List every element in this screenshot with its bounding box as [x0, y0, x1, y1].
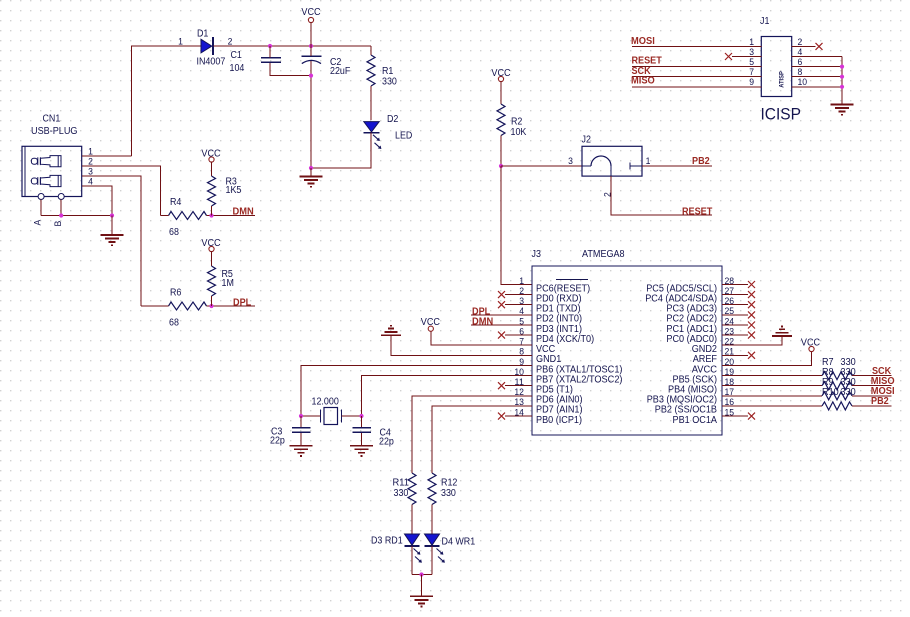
label J1 pin 7	[749, 67, 754, 78]
label J3 left pin name PD5 (T1)	[536, 385, 573, 396]
wire C3 top lead	[300, 416, 302, 427]
resistor R4	[169, 212, 207, 220]
ground symbol below USB	[101, 216, 124, 246]
label J3 pin number 1	[519, 276, 524, 287]
label J1 pin 10	[798, 77, 808, 88]
label D1 pin 2	[228, 37, 233, 48]
svg-text:IN4007: IN4007	[197, 57, 226, 68]
label J3 left pin name PC6(RESET)	[536, 283, 590, 294]
svg-text:330: 330	[441, 488, 456, 499]
IC J3 ATMEGA8 body	[532, 266, 722, 435]
label J1 pin 4	[798, 47, 803, 58]
label R2 value 10K	[511, 127, 527, 138]
label J3 right pin name PB3 (MQSI/OC2)	[647, 395, 717, 406]
svg-text:15: 15	[725, 407, 735, 418]
wire R11 bottom to D3	[411, 505, 413, 535]
label R10 designator	[822, 387, 839, 398]
diode D1 body	[201, 37, 213, 55]
svg-text:DMN: DMN	[472, 316, 493, 327]
wire crystal right lead	[342, 415, 362, 417]
wire DPL to J3 pin 4	[471, 314, 532, 316]
wire USB shield A down	[40, 200, 42, 216]
svg-text:D2: D2	[387, 114, 398, 125]
label J3 value ATMEGA8	[582, 249, 625, 260]
ground symbol at J3 pin 22 (GND2)	[772, 326, 792, 336]
label D2 designator	[387, 114, 398, 125]
label J3 pin number 18	[725, 377, 735, 388]
svg-text:22uF: 22uF	[330, 66, 350, 77]
resistor R9	[822, 392, 852, 400]
svg-text:VCC: VCC	[201, 238, 220, 249]
label J3 pin number 8	[519, 347, 524, 358]
wire RESET to J1 pin 5	[632, 66, 761, 68]
svg-text:14: 14	[514, 407, 524, 418]
label C4 designator	[380, 428, 392, 439]
resistor R7	[822, 372, 852, 380]
wire J1 pin 6 to ground bus	[792, 66, 842, 68]
label J3 left pin name PB0 (ICP1)	[536, 415, 582, 426]
capacitor C4 body	[352, 428, 371, 433]
label J3 right pin name PC4 (ADC4/SDA)	[645, 293, 717, 304]
junction at C2 top / VCC drop	[309, 44, 313, 48]
capacitor C3 body	[292, 428, 311, 433]
net label PB2 at J2	[692, 156, 710, 167]
label R12 value 330	[441, 488, 456, 499]
crystal Y1 12.000 body	[321, 408, 342, 425]
svg-text:1: 1	[646, 156, 651, 167]
wire crystal left lead	[301, 415, 321, 417]
wire SCK net from R7	[852, 375, 892, 377]
svg-text:MISO: MISO	[631, 76, 655, 87]
label R5 designator	[222, 269, 234, 280]
wire R4 left lead	[161, 215, 169, 217]
svg-text:VCC: VCC	[421, 317, 440, 328]
svg-text:R1: R1	[382, 66, 393, 77]
svg-text:VCC: VCC	[201, 148, 220, 159]
label J3 pin number 10	[514, 367, 524, 378]
label VCC at J3 pin 20	[801, 338, 820, 349]
svg-text:330: 330	[394, 488, 409, 499]
svg-text:1K5: 1K5	[226, 185, 242, 196]
svg-text:68: 68	[169, 318, 179, 329]
label CN1 pin B (rotated)	[53, 221, 64, 227]
wire DPL net from R6 to label	[207, 305, 256, 307]
junction at USB pin4/ground bus	[110, 213, 114, 217]
label J3 right pin name PC0 (ADC0)	[666, 334, 717, 345]
label R6 value 68	[169, 318, 179, 329]
resistor R8	[822, 382, 852, 390]
power VCC symbol above R3	[209, 157, 214, 176]
wire R12 bottom to D4	[431, 505, 433, 535]
wire J3 pin 18 to R8	[722, 385, 822, 387]
wire from junction to J2 pin 3	[501, 165, 582, 167]
svg-text:D1: D1	[197, 29, 208, 40]
svg-text:ATISP: ATISP	[779, 71, 786, 88]
wire J1 pin 8 to ground bus	[792, 76, 842, 78]
wire MOSI net from R9	[852, 395, 892, 397]
wire J3 pin 22 GND2 to ground	[722, 336, 782, 345]
label R5 value 1M	[222, 278, 234, 289]
connector J1 body	[761, 37, 791, 97]
wire C4 top lead	[361, 416, 363, 427]
label J3 pin number 2	[519, 286, 524, 297]
label J3 pin number 16	[725, 397, 735, 408]
label J3 pin number 13	[514, 397, 524, 408]
svg-text:PB0 (ICP1): PB0 (ICP1)	[536, 415, 582, 426]
label J3 pin number 27	[725, 286, 735, 297]
wire USB shield B down	[60, 200, 62, 216]
svg-text:ATMEGA8: ATMEGA8	[582, 249, 625, 260]
wire D3/D4 ground bus	[412, 574, 432, 576]
svg-text:1M: 1M	[222, 278, 234, 289]
label J1 pin 6	[798, 57, 803, 68]
svg-text:9: 9	[749, 77, 754, 88]
ground symbol below D3/D4	[410, 596, 433, 606]
label D1 designator	[197, 29, 208, 40]
svg-text:J2: J2	[582, 135, 591, 146]
svg-text:R4: R4	[170, 197, 182, 208]
connector CN1 USB-PLUG body	[22, 146, 82, 199]
junction J1 pin 8	[840, 75, 844, 79]
label J2 pin 3	[568, 156, 573, 167]
label D3 designator and value RD1	[371, 536, 403, 547]
LED D4 body	[425, 534, 440, 546]
label VCC at J3 pin 7	[421, 317, 440, 328]
junction at B/ground bus	[59, 213, 63, 217]
label R10 value 330	[841, 387, 857, 398]
svg-text:LED: LED	[395, 131, 412, 142]
svg-text:68: 68	[169, 227, 179, 238]
label J3 pin number 15	[725, 407, 735, 418]
wire J3 pin 17 to R9	[722, 395, 822, 397]
label R1 designator	[382, 66, 393, 77]
label J1 pin 1	[749, 37, 754, 48]
wire J1 pin 4 to ground bus	[792, 56, 842, 58]
label R7 designator	[822, 357, 834, 368]
wire USB pin 2 (D-) to R4	[82, 166, 161, 216]
net label MISO at J1	[631, 76, 655, 87]
svg-text:R2: R2	[511, 117, 522, 128]
label C3 designator	[271, 427, 283, 438]
svg-text:C1: C1	[231, 50, 242, 61]
label R11 value 330	[394, 488, 409, 499]
label J1 pin 9	[749, 77, 754, 88]
wire USB pin 1 stub	[82, 155, 132, 157]
junction R2/J2/pin1 node	[499, 164, 503, 168]
net label MISO	[871, 376, 895, 387]
svg-text:VCC: VCC	[801, 338, 820, 349]
label VCC above R5	[201, 238, 220, 249]
label R4 designator	[170, 197, 182, 208]
wire VCC rail from D1 cathode to R1 top corner	[214, 45, 372, 47]
power VCC symbol at J3 pin 7	[428, 326, 532, 345]
label J3 right pin name PB4 (MISO)	[668, 385, 717, 396]
wire J3 pin 24 stub with no-connect	[722, 322, 755, 329]
label CN1 designator	[43, 114, 61, 125]
wire C4 bottom lead	[361, 433, 363, 446]
wire SCK to J1 pin 7	[632, 76, 761, 78]
label D2 value LED	[395, 131, 412, 142]
label CN1 pin 1	[88, 147, 93, 158]
label J3 right pin name AREF	[693, 354, 717, 365]
label J3 pin number 19	[725, 367, 735, 378]
wire R5 bottom lead	[211, 296, 213, 306]
label J3 pin number 26	[725, 296, 735, 307]
label J1 vertical text ATISP	[779, 71, 786, 88]
label C2 value 22uF	[330, 66, 350, 77]
wire R1 top lead	[370, 46, 372, 55]
label C1 value 104	[230, 63, 245, 74]
junction D3/D4 ground node	[419, 572, 423, 576]
ground symbol at J3 pin 8 (GND1)	[381, 326, 532, 356]
wire from junction down to ATmega pin 1	[501, 166, 532, 285]
label D1 pin 1	[178, 37, 183, 48]
label J3 left pin name PD0 (RXD)	[536, 293, 582, 304]
wire DMN net from R4 to label	[207, 215, 256, 217]
label J3 right pin name PC1 (ADC1)	[666, 324, 717, 335]
wire C3 bottom lead	[300, 433, 302, 446]
label J3 left pin name PD4 (XCK/T0)	[536, 334, 594, 345]
label D1 value IN4007	[197, 57, 226, 68]
label J3 pin number 14	[514, 407, 524, 418]
net label DPL at J3	[472, 306, 490, 317]
power VCC symbol above R2	[498, 76, 503, 104]
wire net VBUS from USB pin 1 up to diode D1 anode	[132, 46, 202, 156]
label J3 pin number 4	[519, 306, 524, 317]
label R4 value 68	[169, 227, 179, 238]
label CN1 value USB-PLUG	[31, 126, 78, 137]
net label DMN at J3	[472, 316, 493, 327]
label J3 left pin name PD1 (TXD)	[536, 304, 581, 315]
wire J3 pin 15 stub with no-connect	[722, 413, 755, 420]
LED D3 arrows	[414, 549, 422, 563]
junction J1 pin 10	[840, 85, 844, 89]
wire J3 pin 13 to R12	[432, 406, 532, 473]
svg-text:B: B	[53, 221, 64, 227]
svg-text:3: 3	[568, 156, 573, 167]
wire J2 pin 2 down to RESET net	[611, 176, 712, 215]
wire J1 pin 3 stub with no-connect	[725, 53, 761, 60]
label J3 left pin name PB7 (XTAL2/TOSC2)	[536, 374, 623, 385]
junction J1 pin 6	[840, 65, 844, 69]
label J1 pin 3	[749, 47, 754, 58]
label R1 value 330	[382, 77, 397, 88]
wire J3 pin 10 to crystal right	[362, 376, 533, 416]
junction R3/R4/DMN	[209, 213, 213, 217]
svg-text:330: 330	[382, 77, 397, 88]
wire USB pin 3 (D+) to R6	[82, 176, 141, 306]
label R8 value 330	[841, 367, 857, 378]
wire R6 left lead	[141, 305, 169, 307]
label J3 pin number 25	[725, 306, 735, 317]
wire J3 pin 9 to crystal left	[301, 366, 532, 417]
resistor R6	[169, 302, 207, 310]
svg-text:RESET: RESET	[682, 206, 712, 217]
net label PB2	[871, 396, 889, 407]
svg-text:DMN: DMN	[233, 206, 254, 217]
label J3 pin number 7	[519, 337, 524, 348]
capacitor C1 body	[261, 58, 281, 63]
wire D3 cathode down	[411, 546, 413, 575]
label J3 right pin name PC3 (ADC3)	[666, 304, 717, 315]
label J3 pin number 12	[514, 387, 524, 398]
junction R5/R6/DPL	[209, 304, 213, 308]
svg-text:PB2: PB2	[692, 156, 710, 167]
wire J3 pin 19 to R7	[722, 375, 822, 377]
label J3 pin number 5	[519, 316, 524, 327]
label J3 pin number 20	[725, 357, 735, 368]
label R12 designator	[441, 478, 457, 489]
label CN1 pin 4	[88, 177, 93, 188]
wire J3 pin 28 stub with no-connect	[722, 281, 755, 288]
resistor R5	[208, 266, 216, 296]
label J3 pin number 9	[519, 357, 524, 368]
svg-text:330: 330	[841, 387, 857, 398]
wire R2 bottom to junction	[500, 136, 502, 167]
resistor R3	[208, 176, 216, 206]
wire MISO to J1 pin 9	[632, 86, 761, 88]
wire J3 pin 3 stub with no-connect	[498, 301, 532, 308]
label CN1 pin A (rotated)	[33, 219, 44, 225]
label CN1 pin 2	[88, 157, 93, 168]
ground symbol below J1	[831, 105, 854, 115]
label J3 designator	[532, 249, 542, 260]
label R3 value 1K5	[226, 185, 242, 196]
label J3 left pin name PD7 (AIN1)	[536, 405, 583, 416]
wire J3 pin 16 to R10	[722, 405, 822, 407]
svg-text:CN1: CN1	[43, 114, 61, 125]
svg-text:22p: 22p	[379, 437, 394, 448]
wire C2 bottom lead down to ground junction	[310, 61, 312, 168]
wire ground drop below LEDs	[421, 575, 423, 597]
svg-text:D3 RD1: D3 RD1	[371, 536, 403, 547]
wire PB2 net from R10	[852, 405, 892, 407]
svg-text:J1: J1	[760, 16, 769, 27]
resistor R10	[822, 402, 852, 410]
label J1 designator	[760, 16, 769, 27]
label J3 right pin name PB1 OC1A	[673, 415, 718, 426]
label J3 left pin name PD2 (INT0)	[536, 314, 582, 325]
wire D4 cathode down	[431, 546, 433, 575]
ground symbol below C3	[290, 446, 313, 456]
wire J1 pin 10 to ground bus	[792, 86, 842, 88]
svg-text:J3: J3	[532, 249, 542, 260]
label R8 designator	[822, 367, 834, 378]
wire J1 pin 2 stub with no-connect	[792, 43, 823, 50]
resistor R11	[408, 473, 416, 505]
LED D2 arrows	[373, 135, 381, 149]
svg-text:USB-PLUG: USB-PLUG	[31, 126, 78, 137]
label C1 designator	[231, 50, 242, 61]
junction crystal right / C4	[359, 414, 363, 418]
label R7 value 330	[841, 357, 857, 368]
wire USB ground bus	[41, 215, 112, 217]
wire J3 pin 26 stub with no-connect	[722, 301, 755, 308]
wire C1 leads	[270, 46, 311, 76]
label J3 pin number 6	[519, 326, 524, 337]
label J3 pin number 23	[725, 326, 735, 337]
svg-text:104: 104	[230, 63, 245, 74]
wire MOSI to J1 pin 1	[632, 45, 761, 47]
label J3 left pin name PB6 (XTAL1/TOSC1)	[536, 364, 623, 375]
junction at C1 top	[268, 44, 272, 48]
label CN1 pin 3	[88, 167, 93, 178]
svg-text:22p: 22p	[270, 436, 285, 447]
label J3 right pin name PC2 (ADC2)	[666, 314, 717, 325]
svg-text:ICISP: ICISP	[761, 105, 801, 124]
svg-text:VCC: VCC	[301, 7, 320, 18]
label J3 pin number 17	[725, 387, 735, 398]
net label MOSI	[631, 36, 655, 47]
label J3 pin number 11	[514, 377, 524, 388]
wire USB pin 4 (GND) down	[82, 186, 112, 216]
svg-text:2: 2	[603, 192, 614, 197]
label J1 pin 5	[749, 57, 754, 68]
junction at ground node below C2	[309, 166, 313, 170]
wire C2 top lead	[310, 46, 312, 56]
label crystal value 12.000	[312, 397, 340, 408]
svg-text:R10: R10	[822, 387, 839, 398]
wire J1 ground bus vertical	[841, 57, 843, 105]
label R3 designator	[226, 177, 238, 188]
wire R1 bottom lead to D2	[370, 86, 372, 120]
label J1 pin 2	[798, 37, 803, 48]
label VCC top	[301, 7, 320, 18]
svg-text:12.000: 12.000	[312, 397, 340, 408]
wire J3 pin 25 stub with no-connect	[722, 311, 755, 318]
svg-text:PB1 OC1A: PB1 OC1A	[673, 415, 718, 426]
overline over RESET on pin PC6	[556, 279, 588, 281]
label J3 pin number 24	[725, 316, 735, 327]
svg-text:R11: R11	[393, 478, 409, 489]
wire J3 pin 23 stub with no-connect	[722, 332, 755, 339]
label J2 pin 2 (rotated)	[603, 192, 614, 197]
wire J3 pin 2 stub with no-connect	[498, 291, 532, 298]
label C2 designator	[330, 57, 341, 68]
label D4 designator and value WR1	[442, 537, 476, 548]
wire J3 pin 14 stub with no-connect	[498, 413, 532, 420]
junction crystal left / C3	[299, 414, 303, 418]
label C3 value 22p	[270, 436, 285, 447]
LED D3 body	[405, 534, 420, 546]
wire J3 pin 12 to R11	[412, 396, 532, 473]
wire J3 pin 11 stub with no-connect	[498, 382, 532, 389]
label R11 designator	[393, 478, 409, 489]
svg-text:PB2: PB2	[871, 396, 889, 407]
net label RESET at J1	[632, 56, 662, 67]
ground symbol below C2	[300, 168, 323, 187]
svg-text:DPL: DPL	[233, 297, 251, 308]
power VCC symbol at J3 pin 20	[809, 346, 814, 351]
label J1 value ICISP	[761, 105, 801, 124]
LED D2 body	[364, 122, 380, 133]
label J2 designator	[582, 135, 591, 146]
net label SCK at J1	[632, 66, 652, 77]
wire DMN to J3 pin 5	[471, 324, 532, 326]
connector J2 body	[582, 146, 642, 176]
label J3 pin number 22	[725, 337, 735, 348]
wire MISO net from R8	[852, 385, 892, 387]
svg-text:VCC: VCC	[491, 68, 510, 79]
net label SCK	[872, 366, 892, 377]
label J3 left pin name PD6 (AIN0)	[536, 395, 583, 406]
wire D2 cathode down and left to ground junction	[311, 133, 371, 168]
wire J3 pin 20 AVCC to VCC	[722, 352, 812, 366]
net label MOSI	[871, 386, 895, 397]
label J3 pin number 28	[725, 276, 735, 287]
svg-text:MOSI: MOSI	[631, 36, 655, 47]
net label DPL	[233, 297, 251, 308]
